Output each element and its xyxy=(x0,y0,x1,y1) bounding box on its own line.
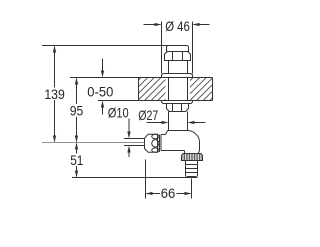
dimension Ø27 right arrow xyxy=(194,122,206,124)
valve body shoulder xyxy=(168,130,190,132)
countertop right edge xyxy=(212,78,214,101)
wire top reference line from cap top xyxy=(42,45,168,47)
66 extension line right xyxy=(191,179,193,199)
tube below nut xyxy=(169,112,188,131)
countertop top edge with left extension xyxy=(70,77,213,79)
dimension Ø46 right arrow xyxy=(194,24,210,26)
wire Ø46 extension line left xyxy=(161,22,163,74)
dimension Ø27 left arrow xyxy=(147,122,163,124)
dimension 95 line xyxy=(76,79,78,142)
valve body bottom edge xyxy=(161,150,185,152)
svg-text:95: 95 xyxy=(70,104,84,119)
knob bottom lobe xyxy=(152,148,159,152)
dimension Ø46 left arrow xyxy=(144,24,161,26)
countertop bottom extension line left xyxy=(98,100,139,102)
Ø10 stem extension line bottom xyxy=(124,145,145,147)
axis center line of handle xyxy=(42,142,145,144)
knob top lobe xyxy=(152,134,159,138)
Ø10 stem extension line top xyxy=(124,138,145,140)
flange escutcheon xyxy=(162,74,193,78)
hose barb ribs xyxy=(186,165,198,173)
svg-text:Ø10: Ø10 xyxy=(108,105,129,120)
elbow outlet neck left edge xyxy=(184,151,186,154)
threaded tube above flange xyxy=(169,61,188,74)
hex nut upper xyxy=(165,52,191,61)
bonnet left edge xyxy=(160,135,162,151)
svg-text:66: 66 xyxy=(161,186,176,201)
bottom reference line at barb end xyxy=(72,177,198,179)
svg-text:0-50: 0-50 xyxy=(87,85,113,100)
cap nut xyxy=(167,46,189,52)
66 extension line left xyxy=(145,160,147,199)
dimension 66 line xyxy=(147,193,191,195)
knob collar ring xyxy=(159,135,161,152)
countertop left edge xyxy=(138,78,140,101)
countertop bottom edge xyxy=(139,100,213,102)
knob middle circle xyxy=(152,140,159,147)
hose barb bottom edge xyxy=(187,176,197,178)
svg-text:51: 51 xyxy=(70,153,83,168)
handle knob outline xyxy=(145,134,158,152)
dimension Ø10 top arrow xyxy=(128,119,130,132)
dimension Ø10 bottom arrow xyxy=(128,153,130,158)
dimension 139 line xyxy=(54,47,56,142)
washer below countertop xyxy=(162,101,193,104)
dimension 0-50 bottom arrow xyxy=(102,108,104,115)
wire Ø46 extension line right xyxy=(192,22,194,74)
svg-text:Ø 46: Ø 46 xyxy=(165,19,190,34)
hex nut lower xyxy=(167,104,189,112)
valve body left chamfer xyxy=(166,131,168,135)
dimension 0-50 top arrow xyxy=(102,59,104,71)
svg-text:Ø27: Ø27 xyxy=(138,108,158,123)
elbow body right outline xyxy=(189,131,200,154)
tube through countertop xyxy=(169,78,188,101)
hose collar knurled nut xyxy=(182,154,203,161)
dimension 51 line xyxy=(76,144,78,177)
bonnet top edge xyxy=(161,134,166,136)
hose barb nipple sides xyxy=(186,161,198,177)
svg-text:139: 139 xyxy=(44,87,65,102)
